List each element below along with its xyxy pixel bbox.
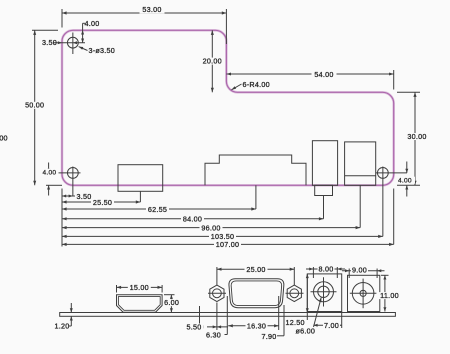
svg-text:53.00: 53.00 xyxy=(142,5,161,14)
dim 4.00 bottom-right hole offset xyxy=(398,162,415,197)
board outline (PCB top view, magenta) xyxy=(62,30,394,185)
svg-text:20.00: 20.00 xyxy=(203,56,222,65)
dim 1.20 board thickness xyxy=(55,303,73,331)
svg-text:3.50: 3.50 xyxy=(42,38,57,47)
svg-text:107.00: 107.00 xyxy=(216,240,239,249)
dim 25.00 screw spacing xyxy=(217,265,294,285)
svg-text:8.00: 8.00 xyxy=(319,265,334,274)
RCA jack front view xyxy=(348,275,380,311)
DB9 right screw standoff front view xyxy=(286,285,304,301)
svg-text:9.00: 9.00 xyxy=(352,265,367,274)
svg-text:62.55: 62.55 xyxy=(148,205,167,214)
dim 4.00 top-left hole offset xyxy=(81,19,99,43)
svg-text:25.50: 25.50 xyxy=(93,198,112,207)
extension line left edge for stack xyxy=(61,189,63,247)
DB9 left screw standoff front view xyxy=(208,285,226,301)
dim 7.00 xyxy=(313,312,341,330)
svg-text:96.00: 96.00 xyxy=(201,223,220,232)
PCB edge bar front view xyxy=(60,313,396,317)
dim 54.00 right section xyxy=(226,70,393,90)
svg-text:15.00: 15.00 xyxy=(130,283,149,292)
leader from hole H3 xyxy=(382,167,384,237)
svg-text:4.00: 4.00 xyxy=(85,19,100,28)
dim 12.50 AV jack height xyxy=(286,274,309,327)
cropped dimension text at image left edge xyxy=(0,133,8,142)
svg-text:6.00: 6.00 xyxy=(164,298,179,307)
svg-text:6-R4.00: 6-R4.00 xyxy=(243,80,270,89)
label 6-R4.00 fillets xyxy=(232,80,270,90)
HDMI connector top view xyxy=(118,165,163,192)
leader from hole H2 xyxy=(72,167,74,197)
mounting hole H3 bottom-right with crosshair xyxy=(376,168,407,179)
svg-text:ø6.00: ø6.00 xyxy=(296,327,316,336)
dim 16.30 DB9 body width xyxy=(228,296,279,330)
leader from board right edge xyxy=(393,189,395,245)
dim 30.00 right section height xyxy=(397,92,429,185)
svg-text:3.50: 3.50 xyxy=(77,192,92,201)
svg-text:7.90: 7.90 xyxy=(262,332,277,341)
AV jack front view xyxy=(307,274,341,312)
mounting hole H1 top-left with crosshair xyxy=(53,33,85,55)
dim 62.55 stack xyxy=(62,205,256,214)
svg-text:54.00: 54.00 xyxy=(314,70,333,79)
dim 107.00 stack xyxy=(62,240,394,249)
svg-text:1.20: 1.20 xyxy=(55,322,70,331)
dim 53.00 top xyxy=(62,5,226,44)
dim 7.90 xyxy=(262,305,285,341)
dim 3.50 stack xyxy=(62,192,92,201)
svg-text:7.00: 7.00 xyxy=(324,321,339,330)
DB9 VGA connector body front view xyxy=(229,279,284,308)
dim 4.00 bottom-left hole offset xyxy=(43,163,59,196)
leader from HDMI centre xyxy=(139,191,141,202)
dim 6.00 HDMI height xyxy=(164,295,180,313)
svg-text:25.00: 25.00 xyxy=(246,265,265,274)
dim 96.00 stack xyxy=(62,223,360,232)
svg-text:00: 00 xyxy=(0,133,8,142)
AV jack top view xyxy=(312,141,337,196)
dim 9.00 RCA jack xyxy=(342,265,385,278)
dim 8.00 AV jack xyxy=(306,265,345,278)
svg-text:5.50: 5.50 xyxy=(187,322,202,331)
label 3-dia3.50 holes xyxy=(79,46,115,55)
svg-text:84.00: 84.00 xyxy=(183,215,202,224)
leader from RCA centre xyxy=(359,185,361,227)
dim 25.50 stack xyxy=(62,198,140,207)
label dia6.00 with leader xyxy=(296,298,322,336)
dim 50.00 left xyxy=(23,30,62,185)
svg-text:50.00: 50.00 xyxy=(25,101,44,110)
leader from DB9 centre xyxy=(255,185,257,209)
svg-text:11.00: 11.00 xyxy=(380,291,399,300)
dim 5.50 xyxy=(187,303,229,332)
dim 3.50 top-left hole offset xyxy=(42,38,77,47)
svg-text:6.30: 6.30 xyxy=(206,330,221,339)
leader from AV jack centre xyxy=(323,196,325,219)
RCA jack top view xyxy=(345,142,376,185)
dim 6.30 xyxy=(206,296,227,339)
svg-text:4.00: 4.00 xyxy=(398,178,412,185)
dim 20.00 step height xyxy=(201,30,224,92)
svg-text:30.00: 30.00 xyxy=(407,132,426,141)
svg-text:16.30: 16.30 xyxy=(247,321,266,330)
dim 103.50 stack xyxy=(62,232,383,241)
dim 11.00 RCA height xyxy=(379,275,400,311)
DB9 VGA connector shield top view xyxy=(205,155,306,185)
mounting hole H2 bottom-left with crosshair xyxy=(46,168,81,179)
svg-text:3-ø3.50: 3-ø3.50 xyxy=(89,46,116,55)
dim 84.00 stack xyxy=(62,215,324,224)
dim 15.00 HDMI width xyxy=(117,283,163,293)
svg-text:4.00: 4.00 xyxy=(43,170,57,177)
HDMI connector front view xyxy=(117,295,163,313)
